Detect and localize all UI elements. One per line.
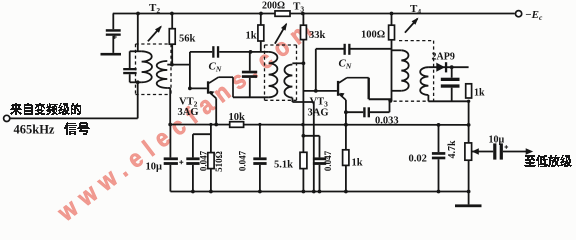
svg-text:4.7k: 4.7k [447, 140, 458, 159]
svg-text:33k: 33k [309, 30, 326, 41]
svg-text:56k: 56k [179, 34, 196, 45]
svg-text:3AG: 3AG [308, 108, 329, 119]
svg-text:3AG: 3AG [178, 107, 199, 118]
svg-text:10k: 10k [229, 112, 246, 123]
svg-text:0.047: 0.047 [238, 150, 248, 171]
svg-text:0.047: 0.047 [199, 150, 209, 171]
svg-text:100Ω: 100Ω [361, 30, 385, 41]
svg-text:510Ω: 510Ω [214, 151, 224, 172]
svg-text:5.1k: 5.1k [274, 160, 293, 171]
svg-text:10μ: 10μ [489, 135, 505, 146]
svg-text:1k: 1k [246, 31, 257, 42]
svg-text:0.047: 0.047 [323, 150, 333, 171]
svg-text:465kHz: 465kHz [14, 123, 55, 137]
svg-text:1k: 1k [352, 158, 363, 169]
svg-text:2AP9: 2AP9 [432, 52, 455, 63]
svg-text:0.033: 0.033 [375, 116, 399, 127]
svg-text:10μ: 10μ [146, 162, 163, 173]
svg-text:1k: 1k [474, 88, 485, 99]
svg-text:200Ω: 200Ω [262, 1, 285, 12]
svg-text:0.02: 0.02 [409, 154, 427, 165]
